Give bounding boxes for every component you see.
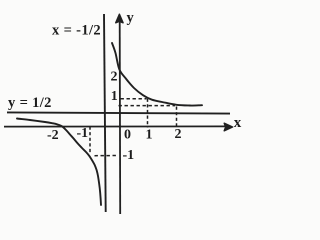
- dashed guide x=-1: [89, 127, 91, 154]
- svg-text:1: 1: [111, 89, 118, 104]
- svg-text:y: y: [127, 10, 135, 26]
- curve lower-left branch: [17, 119, 101, 206]
- dashed guide x=1: [147, 99, 149, 128]
- dashed guide y=-1: [95, 155, 119, 157]
- svg-text:2: 2: [175, 127, 182, 142]
- svg-text:0: 0: [124, 128, 131, 143]
- horizontal asymptote line y=1/2: [7, 112, 230, 113]
- dashed guide y=0.8: [119, 105, 176, 107]
- x-axis: [4, 123, 233, 131]
- svg-text:-1: -1: [77, 126, 89, 141]
- svg-text:-2: -2: [47, 128, 59, 143]
- svg-text:x = -1/2: x = -1/2: [52, 23, 101, 39]
- svg-text:x: x: [234, 115, 242, 131]
- svg-text:2: 2: [111, 70, 118, 85]
- svg-text:1: 1: [146, 128, 153, 143]
- curve upper-right branch: [112, 43, 202, 106]
- y-axis: [116, 14, 123, 214]
- svg-text:y = 1/2: y = 1/2: [8, 95, 52, 111]
- vertical asymptote line x=-1/2: [104, 14, 106, 212]
- dashed guide y=1: [121, 98, 147, 100]
- svg-text:-1: -1: [123, 148, 135, 163]
- dashed guide x=2: [176, 107, 178, 128]
